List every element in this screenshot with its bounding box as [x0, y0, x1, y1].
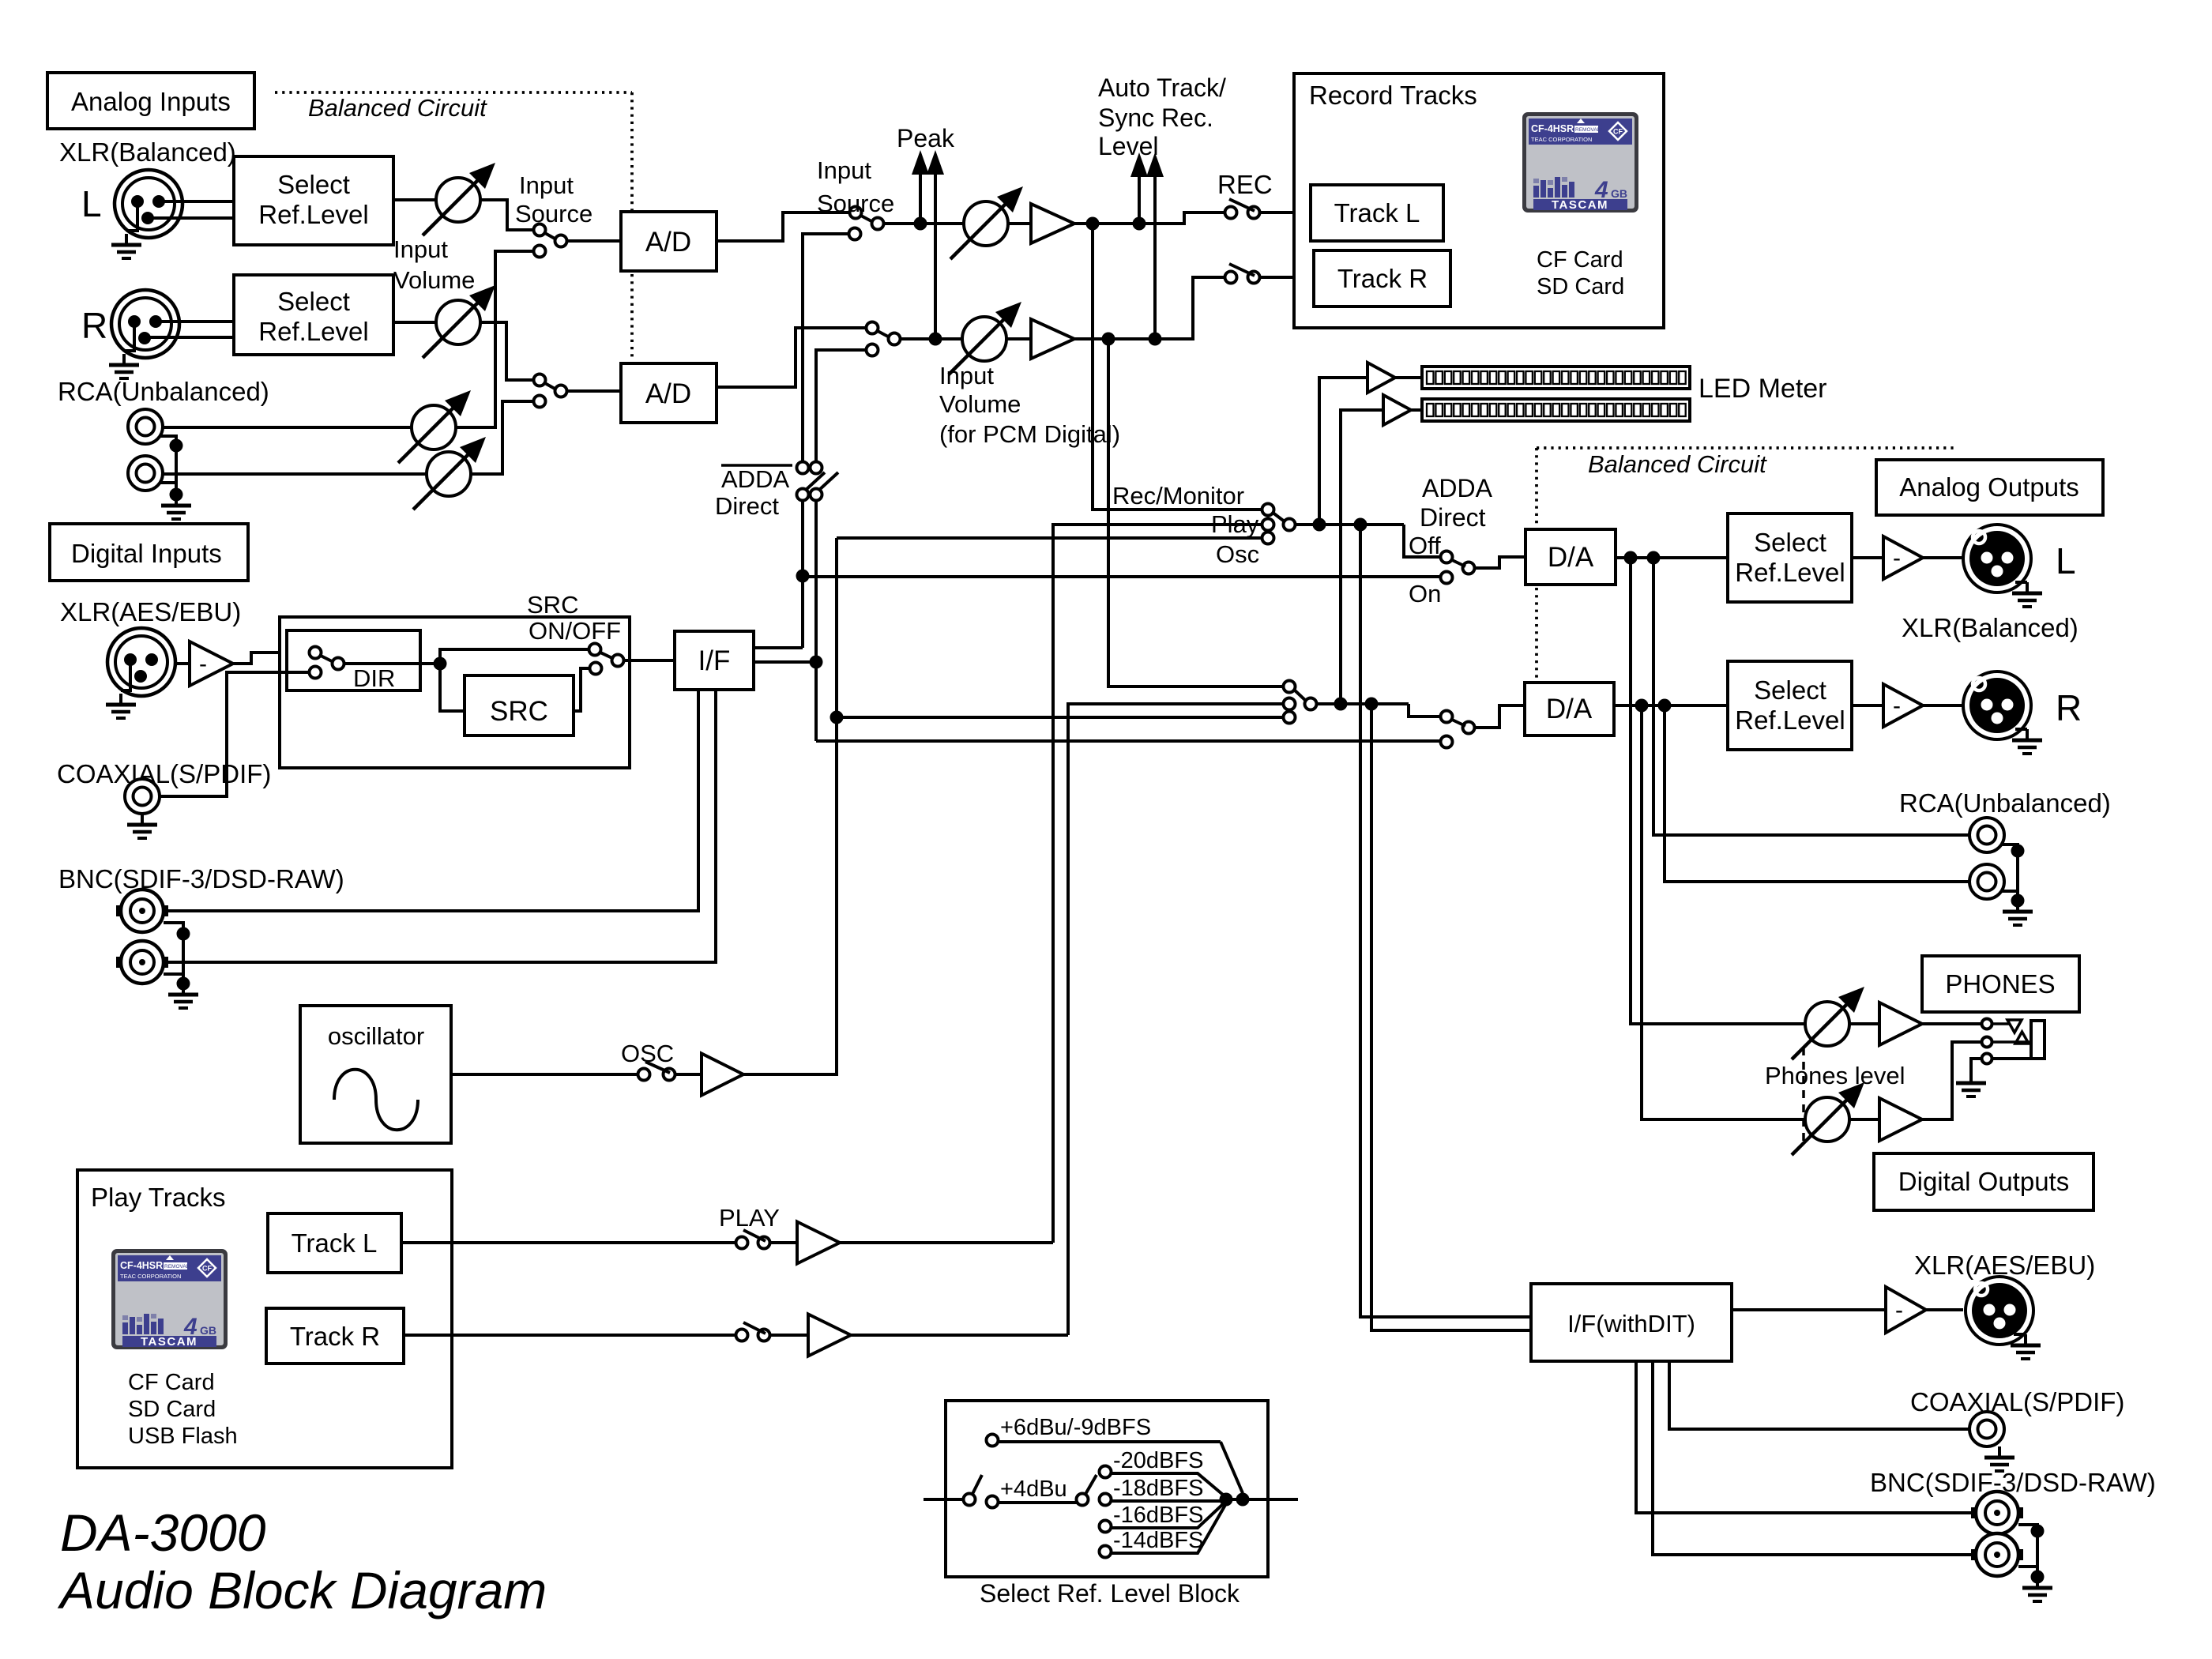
ground XLR AES input	[121, 666, 130, 690]
svg-text:I/F: I/F	[698, 645, 731, 676]
label box Digital Inputs	[50, 524, 248, 581]
svg-text:Input: Input	[817, 156, 871, 184]
amplifier record path L	[1008, 222, 1031, 225]
ground XLR out L	[2015, 581, 2027, 584]
ground RCA outputs	[2001, 845, 2018, 901]
amplifier play R	[808, 1315, 851, 1356]
svg-text:-: -	[1893, 693, 1901, 719]
switch input source ch1 (record source select L)	[850, 207, 862, 219]
svg-text:RCA(Unbalanced): RCA(Unbalanced)	[58, 377, 269, 406]
svg-text:L: L	[81, 183, 102, 224]
svg-text:REC: REC	[1217, 170, 1273, 199]
block Track L (record)	[1311, 185, 1443, 241]
wire +6dBu diagonal to output node	[1221, 1442, 1243, 1493]
svg-text:BNC(SDIF-3/DSD-RAW): BNC(SDIF-3/DSD-RAW)	[58, 864, 344, 893]
switch PLAY L	[736, 1237, 748, 1249]
label +4dBu with line	[987, 1496, 999, 1508]
node peak takeoff R	[929, 333, 942, 346]
svg-text:CF-4HSR: CF-4HSR	[1531, 123, 1574, 134]
wire monitor bus L	[1295, 523, 1404, 526]
volume input R (analog)	[423, 285, 495, 358]
volume phones L	[1792, 987, 1864, 1059]
sine wave symbol	[334, 1070, 418, 1130]
wire record path L to REC switch	[1074, 213, 1225, 224]
switch ref level dBFS select	[1077, 1494, 1089, 1506]
node D/A2 out rca takeoff	[1658, 699, 1672, 713]
wire D/A2 to RCA out R	[1665, 705, 1969, 882]
label -14dBFS contact and line	[1100, 1546, 1112, 1558]
svg-text:ADDA: ADDA	[721, 465, 789, 493]
svg-text:Analog Outputs: Analog Outputs	[1899, 472, 2079, 502]
wire LED amp2 to bar	[1411, 408, 1422, 412]
node rec/monitor takeoff L	[1086, 217, 1100, 231]
wire D/A1 output to Select Ref.Level	[1616, 556, 1728, 559]
svg-text:TEAC CORPORATION: TEAC CORPORATION	[120, 1273, 181, 1280]
dotted balanced-circuit boundary (input side)	[275, 91, 632, 94]
amplifier phones L	[1849, 1022, 1879, 1025]
svg-text:Auto Track/: Auto Track/	[1098, 73, 1226, 102]
block Select Ref.Level (input R)	[234, 275, 393, 355]
svg-text:XLR(AES/EBU): XLR(AES/EBU)	[60, 597, 241, 626]
wire record path R to REC switch	[1074, 277, 1225, 339]
svg-text:Select Ref. Level Block: Select Ref. Level Block	[980, 1579, 1240, 1608]
wire I/F output L	[754, 646, 803, 649]
CF card graphic (record)	[1522, 112, 1638, 213]
wire REC L to Track L	[1259, 211, 1311, 214]
svg-text:Ref.Level: Ref.Level	[258, 317, 368, 346]
switch A/D1 input select	[534, 224, 546, 236]
switch ADDA direct off/on R	[1441, 711, 1453, 723]
switch ref level dBu select	[964, 1494, 976, 1506]
block D/A converter 1	[1525, 529, 1616, 585]
node after DIR	[434, 657, 447, 671]
wire D/A2 to phones volume R	[1642, 705, 1805, 1119]
wire ref level exit	[1226, 1498, 1298, 1501]
wire osc feed L to monitor switch	[837, 536, 1262, 540]
connector XLR output R	[1963, 671, 2031, 739]
svg-text:Select: Select	[277, 170, 350, 199]
svg-text:Select: Select	[1754, 675, 1826, 705]
svg-text:Volume: Volume	[939, 390, 1021, 418]
wire Select R to input volume R	[393, 321, 436, 324]
wire ch1 common to PCM volume L	[883, 222, 964, 225]
wire input source ch2 bottom contact to vertical B	[816, 350, 871, 462]
svg-text:Audio Block Diagram: Audio Block Diagram	[57, 1561, 547, 1619]
svg-text:R: R	[2056, 687, 2082, 728]
svg-text:A/D: A/D	[645, 378, 691, 409]
ground XLR AES out	[2014, 1333, 2026, 1336]
block Select Ref.Level (input L)	[234, 156, 393, 245]
node auto-track takeoff L	[1133, 217, 1146, 231]
svg-text:I/F(withDIT): I/F(withDIT)	[1567, 1310, 1695, 1337]
svg-text:+6dBu/-9dBFS: +6dBu/-9dBFS	[1000, 1415, 1151, 1440]
svg-text:Phones level: Phones level	[1765, 1062, 1905, 1089]
svg-text:SD Card: SD Card	[1537, 274, 1624, 299]
wire A/D2 output to input source switch ch2	[717, 328, 867, 387]
svg-text:Track L: Track L	[1334, 198, 1420, 228]
svg-text:SRC: SRC	[527, 591, 578, 619]
wire oscillator to OSC switch	[451, 1073, 638, 1076]
wire D/A2 output to Select Ref.Level	[1614, 704, 1728, 707]
wire DIR common to node	[344, 662, 440, 665]
wire A/D2 switch common to A/D2	[566, 389, 621, 393]
block Select Ref. Level Block	[946, 1401, 1268, 1577]
svg-text:DIR: DIR	[353, 664, 395, 692]
amplifier output L	[1852, 556, 1883, 559]
svg-text:TASCAM: TASCAM	[141, 1335, 197, 1349]
volume phones R	[1792, 1082, 1864, 1155]
wire osc feed R to monitor switch	[837, 716, 1283, 719]
node monitor R to digital out	[1365, 698, 1379, 711]
wire REC R to Track R	[1259, 276, 1314, 279]
ground headphone jack sleeve	[1971, 1059, 1981, 1072]
svg-text:COAXIAL(S/PDIF): COAXIAL(S/PDIF)	[1910, 1387, 2124, 1416]
amplifier record path R	[1006, 337, 1031, 340]
wire rec feed R down to monitor switch	[1108, 339, 1283, 687]
wire ADDA-on line R to D/A2 On contact	[816, 739, 1441, 743]
amplifier output R	[1852, 704, 1883, 707]
dotted balanced-circuit boundary (output side)	[1537, 446, 1958, 450]
node ADDA-on takeoff R	[810, 656, 823, 669]
ground RCA inputs	[160, 436, 176, 495]
block I/F(withDIT)	[1531, 1284, 1732, 1361]
amplifier LED meter R	[1383, 395, 1411, 425]
connector RCA input R	[128, 456, 163, 491]
ground XLR out R	[2015, 728, 2027, 731]
wire volume L to A/D1 switch top contact	[480, 200, 532, 230]
svg-text:XLR(Balanced): XLR(Balanced)	[59, 137, 236, 167]
svg-text:SD Card: SD Card	[128, 1397, 216, 1422]
svg-text:Digital Outputs: Digital Outputs	[1898, 1167, 2069, 1196]
svg-text:Volume: Volume	[393, 266, 475, 294]
svg-text:Play: Play	[1211, 510, 1259, 538]
svg-text:Source: Source	[817, 190, 894, 217]
wire amp L to XLR out L	[1923, 556, 1963, 559]
connector RCA input L	[128, 409, 163, 444]
svg-text:ADDA: ADDA	[1422, 474, 1493, 502]
label box Analog Inputs	[47, 73, 254, 129]
svg-text:Direct: Direct	[1420, 503, 1486, 532]
svg-text:Source: Source	[515, 200, 592, 228]
wire BNC1 to I/F	[168, 690, 698, 911]
wire ADDA-on line L to D/A1 On contact	[803, 575, 1441, 578]
wire play feed R to monitor switch	[1068, 704, 1283, 1335]
node D/A1 out phones takeoff	[1624, 551, 1638, 565]
switch SRC ON/OFF	[589, 644, 601, 656]
wire input source ch1 bottom contact to vertical A	[803, 234, 849, 462]
volume input L (analog)	[423, 163, 495, 235]
wire monitor R down to I/F(withDIT)	[1371, 704, 1531, 1330]
wire monitor L to LED amp 1	[1319, 378, 1367, 525]
connector RCA output L	[1969, 818, 2004, 852]
svg-text:Ref.Level: Ref.Level	[1735, 558, 1845, 587]
amplifier play L	[797, 1222, 840, 1264]
svg-text:-16dBFS: -16dBFS	[1113, 1503, 1203, 1528]
connector COAXIAL output	[1969, 1412, 2004, 1446]
svg-text:D/A: D/A	[1546, 694, 1593, 724]
label -18dBFS contact and line	[1100, 1494, 1112, 1506]
wire vertical B lower segment	[814, 500, 818, 741]
wire osc bus up (feeds Osc L/R monitor contacts)	[743, 538, 837, 1074]
amplifier AES input receiver	[175, 662, 190, 665]
switch A/D2 input select	[534, 374, 546, 386]
label +6dBu/-9dBFS with line	[987, 1435, 999, 1446]
label -16dBFS contact and line	[1100, 1521, 1112, 1533]
svg-text:Osc: Osc	[1216, 540, 1259, 568]
block SRC section outer box	[280, 617, 630, 768]
wire rec feed L down to monitor switch	[1093, 224, 1262, 510]
svg-text:USB Flash: USB Flash	[128, 1424, 238, 1449]
svg-text:Track R: Track R	[290, 1322, 380, 1351]
svg-text:Select: Select	[1754, 528, 1826, 557]
svg-text:Off: Off	[1409, 532, 1441, 559]
ground BNC inputs	[164, 923, 183, 984]
node monitor L to digital out	[1354, 518, 1367, 532]
wire monitor L down to I/F(withDIT)	[1360, 525, 1531, 1317]
wire BNC2 to I/F	[168, 690, 716, 962]
wire monitor L into D/A1 Off contact	[1404, 525, 1441, 557]
svg-text:-14dBFS: -14dBFS	[1113, 1528, 1203, 1553]
connector XLR input R	[111, 290, 179, 358]
svg-text:Sync Rec.: Sync Rec.	[1098, 103, 1213, 132]
svg-text:CF: CF	[1613, 128, 1623, 136]
block DIR	[287, 630, 420, 690]
wire PLAY R switch to amp	[769, 1334, 808, 1337]
connector BNC input 1	[116, 890, 168, 932]
wire amp to XLR AES out	[1926, 1308, 1963, 1311]
block D/A converter 2	[1525, 683, 1614, 735]
svg-text:On: On	[1409, 580, 1441, 608]
switch rec/monitor L	[1262, 504, 1274, 516]
wire play L amp output (rises at x1333)	[840, 1241, 1053, 1244]
node D/A2 out phones takeoff	[1635, 699, 1649, 713]
wire I/F(withDIT) to BNC out 1	[1636, 1361, 1971, 1513]
node auto-track takeoff R	[1149, 333, 1162, 346]
svg-text:PHONES: PHONES	[1945, 969, 2055, 999]
svg-text:Balanced Circuit: Balanced Circuit	[308, 94, 487, 122]
wire phones amp L to jack tip	[1922, 1022, 1981, 1025]
block A/D converter 1	[621, 212, 717, 271]
wire volume RCA L riser to A/D1 switch bottom contact	[456, 251, 532, 427]
svg-text:ON/OFF: ON/OFF	[529, 617, 621, 645]
wire ch2 common to PCM volume R	[900, 337, 962, 340]
amplifier oscillator	[702, 1054, 743, 1096]
switch input source ch2 (record source select R)	[867, 322, 878, 334]
svg-text:Peak: Peak	[897, 124, 955, 152]
svg-text:Input: Input	[519, 171, 574, 199]
node ref level sum 2	[1236, 1493, 1250, 1507]
svg-text:-: -	[1893, 545, 1901, 571]
svg-text:Input: Input	[939, 362, 994, 389]
switch PLAY R	[736, 1330, 748, 1341]
wire RCA R to volume	[163, 472, 473, 476]
svg-text:RCA(Unbalanced): RCA(Unbalanced)	[1899, 788, 2111, 818]
switch ADDA direct R (vertical B)	[811, 462, 822, 474]
wire I/F output R	[754, 660, 816, 664]
label box Analog Outputs	[1876, 460, 2103, 515]
volume RCA input R	[413, 437, 486, 510]
switch DIR input select	[310, 647, 322, 659]
svg-text:CF Card: CF Card	[128, 1370, 215, 1395]
auto track arrow R shaft	[1153, 177, 1157, 339]
volume PCM digital R	[949, 302, 1021, 374]
svg-text:XLR(Balanced): XLR(Balanced)	[1902, 613, 2078, 642]
amplifier AES output driver	[1886, 1287, 1926, 1333]
svg-text:LED Meter: LED Meter	[1698, 374, 1827, 404]
svg-text:REMOVABLE: REMOVABLE	[164, 1264, 197, 1270]
volume PCM digital L	[950, 186, 1023, 259]
node ref level sum 1	[1220, 1493, 1233, 1507]
wire monitor R into D/A2 Off contact	[1409, 704, 1441, 717]
svg-text:-18dBFS: -18dBFS	[1113, 1476, 1203, 1501]
LED meter bar L	[1422, 367, 1690, 389]
wire D/A1 to phones volume L	[1631, 558, 1805, 1024]
connector COAXIAL input	[125, 779, 160, 814]
label box Digital Outputs	[1874, 1153, 2093, 1210]
label -20dBFS contact and line	[1100, 1466, 1112, 1478]
wire SRC switch common to I/F	[623, 659, 675, 662]
svg-text:Ref.Level: Ref.Level	[1735, 705, 1845, 735]
wire D/A1 switch common to D/A1	[1474, 557, 1525, 568]
block Track L (play)	[268, 1213, 401, 1273]
svg-text:SRC: SRC	[490, 696, 548, 727]
switch ADDA direct L (vertical A)	[797, 462, 809, 474]
wire OSC switch to amp	[675, 1073, 702, 1076]
block oscillator	[300, 1006, 451, 1143]
label box PHONES	[1922, 956, 2079, 1012]
wire ref level entry	[924, 1498, 964, 1501]
svg-text:GB: GB	[200, 1324, 216, 1337]
wire XLR R pair to Select Ref.Level	[152, 320, 234, 323]
connector BNC output 2	[1971, 1533, 2023, 1576]
block Play Tracks outer box	[77, 1170, 452, 1468]
wire PLAY L switch to amp	[769, 1241, 797, 1244]
svg-text:TASCAM: TASCAM	[1552, 198, 1608, 212]
switch REC L	[1225, 207, 1237, 219]
svg-text:Ref.Level: Ref.Level	[258, 200, 368, 229]
svg-text:BNC(SDIF-3/DSD-RAW): BNC(SDIF-3/DSD-RAW)	[1870, 1468, 2156, 1497]
svg-text:GB: GB	[1611, 187, 1627, 200]
svg-text:Record Tracks: Record Tracks	[1309, 81, 1477, 110]
svg-text:L: L	[2056, 540, 2076, 581]
wire SRC output to ON contact	[574, 668, 590, 711]
connector BNC output 1	[1971, 1492, 2023, 1534]
block I/F (digital input interface)	[675, 631, 754, 690]
block Select Ref.Level (output R)	[1728, 661, 1852, 750]
wire I/F(withDIT) to AES out amp	[1732, 1308, 1886, 1311]
node osc bus R takeoff	[830, 711, 844, 724]
wire play feed L to monitor switch	[1053, 525, 1262, 1243]
ground XLR input R	[124, 328, 134, 351]
svg-text:COAXIAL(S/PDIF): COAXIAL(S/PDIF)	[57, 759, 271, 788]
wire volume R to A/D2 switch top contact	[480, 322, 532, 380]
svg-text:CF-4HSR: CF-4HSR	[120, 1260, 163, 1271]
wire coax riser to DIR bottom contact	[160, 672, 310, 796]
svg-text:DA-3000: DA-3000	[60, 1503, 266, 1562]
svg-text:Analog Inputs: Analog Inputs	[71, 87, 231, 116]
connector headphone jack	[1982, 1019, 1992, 1029]
wire monitor R to LED amp 2	[1341, 410, 1383, 704]
switch OSC	[638, 1069, 650, 1081]
svg-text:Direct: Direct	[715, 492, 779, 520]
node peak takeoff L	[914, 217, 927, 231]
svg-text:TEAC CORPORATION: TEAC CORPORATION	[1531, 136, 1592, 143]
wire volume RCA R riser to A/D2 switch bottom contact	[471, 401, 532, 474]
connector XLR output L	[1963, 525, 2031, 592]
CF card graphic (play)	[111, 1249, 228, 1349]
wire SRC bypass to SRC ON/OFF switch	[440, 649, 589, 664]
svg-text:A/D: A/D	[645, 227, 691, 258]
svg-text:-: -	[1895, 1297, 1903, 1323]
wire Select L to input volume L	[393, 198, 436, 201]
dashed gang line phones volumes	[1802, 1048, 1805, 1142]
svg-text:XLR(AES/EBU): XLR(AES/EBU)	[1914, 1251, 2095, 1280]
wire vertical A lower (I/F out L up to ADDA switch)	[801, 500, 804, 648]
svg-text:CF Card: CF Card	[1537, 247, 1623, 273]
connector XLR output AES/EBU	[1966, 1277, 2033, 1345]
wire A/D1 output to input source switch	[717, 213, 850, 241]
svg-text:oscillator: oscillator	[328, 1022, 424, 1050]
block Record Tracks outer box	[1294, 73, 1664, 328]
wire AES amp to DIR switch top contact	[233, 653, 310, 664]
wire XLR L pair to Select Ref.Level	[156, 200, 234, 203]
svg-text:D/A: D/A	[1548, 542, 1594, 573]
svg-text:-: -	[199, 651, 207, 677]
switch ADDA direct off/on L	[1441, 551, 1453, 563]
node monitor R to LED	[1334, 698, 1348, 711]
block Track R (record)	[1314, 250, 1450, 307]
ground coax output	[1998, 1445, 2001, 1448]
svg-text:Digital Inputs: Digital Inputs	[71, 539, 222, 568]
LED meter bar R	[1422, 399, 1690, 421]
amplifier phones R	[1849, 1118, 1879, 1121]
svg-text:Balanced Circuit: Balanced Circuit	[1588, 450, 1767, 478]
wire amp R to XLR out R	[1923, 704, 1963, 707]
svg-text:Rec/Monitor: Rec/Monitor	[1112, 482, 1244, 510]
svg-text:Track L: Track L	[292, 1228, 378, 1258]
connector BNC input 2	[116, 941, 168, 984]
node monitor L to LED	[1313, 518, 1326, 532]
wire node down into SRC	[440, 664, 465, 711]
connector XLR input L	[115, 170, 182, 238]
svg-text:-20dBFS: -20dBFS	[1113, 1448, 1203, 1473]
wire D/A1 to RCA out L	[1653, 558, 1969, 835]
switch rec/monitor R	[1284, 681, 1296, 693]
connector XLR input AES/EBU	[107, 628, 175, 696]
svg-text:+4dBu: +4dBu	[1000, 1477, 1067, 1502]
svg-text:Input: Input	[393, 235, 448, 263]
wire Track L to PLAY switch	[401, 1241, 735, 1244]
wire D/A2 switch common to D/A2	[1474, 705, 1525, 728]
svg-text:Select: Select	[277, 287, 350, 316]
block Track R (play)	[266, 1308, 404, 1364]
node D/A1 out rca takeoff	[1647, 551, 1661, 565]
peak arrow L	[919, 175, 922, 224]
auto track arrow L	[1138, 177, 1141, 224]
connector RCA output R	[1969, 864, 2004, 899]
wire RCA L to volume	[163, 426, 412, 429]
block SRC	[465, 675, 574, 735]
amplifier LED meter L	[1367, 363, 1395, 393]
ground XLR input L	[126, 208, 137, 231]
wire LED amp1 to bar	[1395, 376, 1422, 379]
block Select Ref.Level (output L)	[1728, 513, 1852, 602]
svg-text:Play Tracks: Play Tracks	[91, 1183, 226, 1212]
svg-text:Level: Level	[1098, 132, 1159, 160]
svg-text:REMOVABLE: REMOVABLE	[1575, 127, 1608, 133]
svg-text:CF: CF	[202, 1265, 212, 1273]
wire A/D1 switch common to A/D1	[566, 239, 621, 243]
